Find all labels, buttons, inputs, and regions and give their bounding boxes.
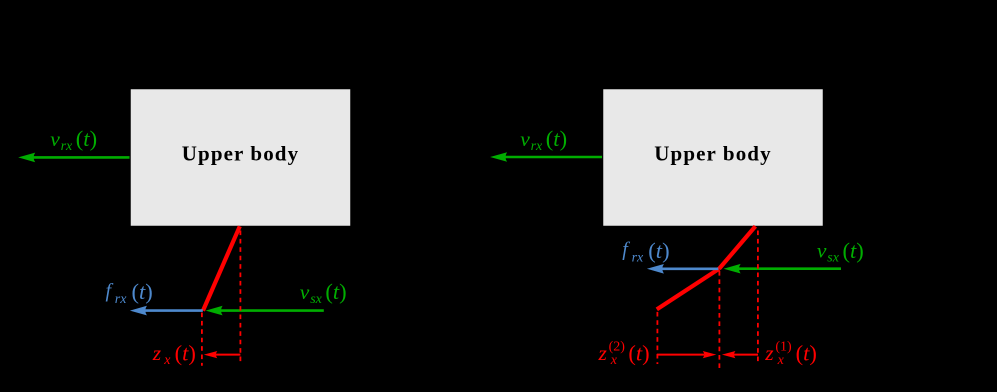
svg-text:sx: sx [827,251,839,266]
dashed vertical line at foot (right figure) [656,312,658,364]
label v_rx(t) (left figure) [50,126,97,154]
svg-text:(1): (1) [775,340,792,355]
svg-text:v: v [50,127,60,151]
svg-text:x: x [163,353,171,368]
svg-text:v: v [817,239,827,263]
dimension line z_x (left figure) [204,351,241,358]
upper body box (right) [603,89,824,227]
svg-text:(t): (t) [132,279,153,304]
label v_rx(t) (right figure) [520,126,567,154]
svg-text:x: x [610,353,618,368]
svg-text:v: v [520,127,530,151]
svg-text:rx: rx [632,251,644,266]
svg-text:(t): (t) [796,341,817,366]
leg lower segment (right figure, thick red line) [657,269,719,310]
svg-text:(t): (t) [325,279,346,304]
label z_x^(1)(t) (right figure) [764,340,817,369]
arrow f_rx (left figure, blue) [130,306,203,316]
svg-text:z: z [598,341,608,365]
svg-text:v: v [300,280,310,304]
svg-text:rx: rx [531,139,543,154]
arrow v_sx (right figure, green) [724,264,841,274]
svg-text:rx: rx [115,292,127,307]
svg-text:(t): (t) [175,341,196,366]
arrow v_rx (right figure) [490,152,602,162]
svg-text:rx: rx [61,139,73,154]
svg-text:(t): (t) [843,238,864,263]
svg-text:z: z [152,341,162,365]
dimension line z_x^(2) (right figure, arrow pointing right) [657,351,716,358]
dashed vertical line below box bottom (left figure) [239,231,241,364]
dashed vertical line from box bottom (right figure) [757,231,759,365]
arrow v_sx (left figure, green) [206,306,324,316]
dashed vertical line at foot (left figure) [201,313,203,366]
svg-text:(t): (t) [648,238,669,263]
svg-text:(t): (t) [628,341,649,366]
svg-text:(t): (t) [76,126,97,151]
upper body box (left) [130,89,351,227]
label f_rx(t) (right figure) [622,238,669,266]
leg (left figure, thick red line) [203,226,240,310]
svg-text:(t): (t) [546,126,567,151]
svg-text:sx: sx [310,292,322,307]
arrow f_rx (right figure, blue) [647,264,718,274]
svg-text:x: x [777,353,785,368]
label z_x^(2)(t) (right figure) [598,340,650,369]
label v_sx(t) (left figure) [300,279,347,307]
svg-text:Upper body: Upper body [654,142,771,166]
label z_x(t) (left figure) [152,341,196,368]
svg-text:(2): (2) [609,340,626,355]
leg upper segment (right figure, thick red line) [719,226,755,268]
dimension line z_x^(1) (right figure, arrow pointing left) [722,351,758,358]
label f_rx(t) (left figure) [106,279,153,307]
dashed vertical line at leg bend (right figure) [718,271,720,369]
svg-text:Upper body: Upper body [182,142,299,166]
label v_sx(t) (right figure) [817,238,864,266]
arrow v_rx (left figure) [18,153,129,163]
svg-text:z: z [764,341,774,365]
